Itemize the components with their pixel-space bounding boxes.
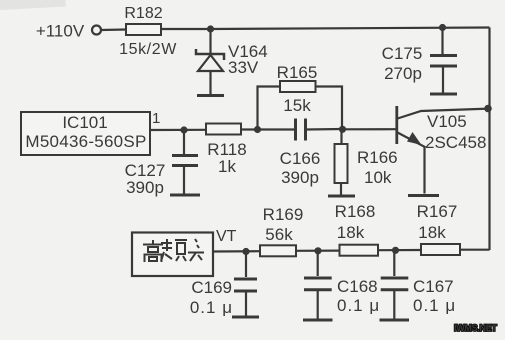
wire node D to base — [343, 128, 397, 130]
svg-text:C168: C168 — [337, 277, 378, 296]
svg-text:33V: 33V — [228, 58, 259, 77]
ground (C127) — [170, 194, 200, 197]
svg-text:C167: C167 — [413, 277, 454, 296]
watermark IWMS.NET — [454, 323, 497, 333]
node A junction dot — [207, 25, 214, 32]
svg-text:R168: R168 — [335, 202, 376, 221]
svg-text:0.1 μ: 0.1 μ — [190, 298, 233, 317]
svg-text:15k/2W: 15k/2W — [119, 41, 177, 58]
transistor V105 — [397, 105, 492, 194]
tuner box 高频头 — [132, 233, 213, 277]
svg-text:15k: 15k — [283, 96, 311, 115]
wire R118 to node C — [241, 128, 295, 130]
+110V terminal — [92, 26, 101, 35]
node D junction dot — [339, 126, 346, 133]
ground (R166) — [328, 195, 355, 198]
ground (V105 emitter) — [408, 194, 439, 197]
svg-text:C169: C169 — [191, 278, 232, 297]
resistor R167 — [417, 202, 460, 255]
node C junction dot — [254, 126, 261, 133]
svg-text:0.1 μ: 0.1 μ — [337, 296, 380, 315]
glyph 频 — [161, 239, 187, 261]
wire top rail — [211, 28, 490, 30]
svg-text:390p: 390p — [281, 168, 319, 187]
svg-text:1: 1 — [152, 110, 160, 127]
svg-text:R182: R182 — [124, 5, 162, 22]
svg-text:18k: 18k — [337, 223, 365, 242]
capacitor C168 — [304, 251, 380, 319]
svg-text:2SC458: 2SC458 — [425, 133, 486, 152]
svg-text:10k: 10k — [364, 168, 392, 187]
resistor R168 — [335, 202, 378, 256]
scan smear top-left (decorative) — [0, 0, 66, 10]
svg-text:V105: V105 — [427, 112, 467, 131]
node E junction dot — [242, 248, 249, 255]
svg-text:C175: C175 — [382, 44, 423, 63]
resistor R169 — [260, 205, 303, 256]
glyph 头 — [188, 239, 204, 261]
wire R169 to node F — [296, 250, 340, 252]
svg-text:IWMS.NET: IWMS.NET — [454, 323, 497, 333]
wire tuner to node E — [213, 250, 260, 253]
node F junction dot — [314, 247, 321, 254]
wire R167 to right edge — [460, 249, 490, 251]
ground (C175) — [430, 93, 457, 96]
wire R182 to node A — [161, 28, 211, 30]
svg-text:IC101: IC101 — [62, 113, 107, 132]
capacitor C167 — [381, 250, 456, 318]
svg-text:18k: 18k — [418, 223, 446, 242]
svg-text:VT: VT — [216, 228, 237, 245]
svg-text:0.1 μ: 0.1 μ — [413, 296, 456, 315]
resistor R165 — [258, 63, 343, 130]
wire right edge vertical — [488, 28, 490, 251]
svg-text:R167: R167 — [417, 202, 458, 221]
svg-text:R165: R165 — [277, 63, 318, 82]
ground (C169) — [232, 316, 259, 319]
ground (C168) — [303, 319, 333, 322]
IC IC101 — [21, 112, 150, 155]
capacitor C175 — [382, 24, 457, 93]
svg-text:M50436-560SP: M50436-560SP — [25, 132, 146, 151]
capacitor C166 — [280, 119, 342, 188]
svg-text:C166: C166 — [280, 149, 321, 168]
svg-text:1k: 1k — [218, 157, 236, 176]
capacitor C127 — [125, 130, 198, 197]
svg-text:R169: R169 — [263, 205, 304, 224]
capacitor C169 — [190, 252, 257, 318]
svg-text:+110V: +110V — [36, 22, 85, 41]
wire R168 to node G — [378, 249, 421, 251]
wire IC to R118 — [150, 129, 206, 131]
wire terminal to R182 — [101, 28, 126, 31]
zener diode V164 — [196, 29, 268, 94]
svg-text:390p: 390p — [126, 178, 164, 197]
resistor R182 — [119, 5, 177, 58]
svg-text:R166: R166 — [357, 148, 398, 167]
resistor R166 — [335, 129, 398, 194]
node B junction dot — [180, 126, 187, 133]
node G junction dot — [392, 247, 399, 254]
svg-text:56k: 56k — [265, 225, 293, 244]
ground (C167) — [380, 319, 410, 322]
svg-text:270p: 270p — [384, 64, 422, 83]
ground (V164) — [197, 94, 224, 97]
resistor R118 — [206, 124, 247, 177]
glyph 高 — [143, 240, 163, 262]
